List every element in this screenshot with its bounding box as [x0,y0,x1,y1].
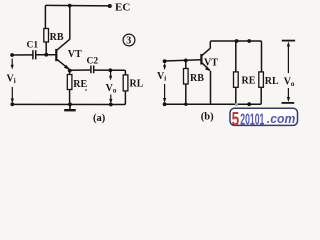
resistor RL (b) [259,72,264,87]
source Vo arrow upper segment (b) [287,42,290,74]
svg-text:3: 3 [126,36,131,47]
terminal bar: Vo bottom (b) [282,102,295,104]
svg-text:C1: C1 [27,41,39,51]
svg-text:EC: EC [115,2,130,14]
wire: junction down to RB (b) [185,60,187,68]
svg-text:Vi: Vi [157,71,166,83]
svg-text:20101: 20101 [240,111,264,128]
svg-text:VT: VT [68,49,82,60]
source Vo arrow lower segment (b) [287,88,290,102]
resistor RL (a) [123,75,128,91]
wire: emitter node to C2 [70,69,91,71]
wire: (b) collector riser and top rail [210,41,261,72]
wire: RB bottom to base node [45,42,47,55]
source Vi arrow lower segment (b) [163,84,166,103]
transistor VT (b) [201,48,210,71]
watermark logo 520101.com [230,103,298,130]
node: extra junction dot on (b) bottom rail [247,102,251,106]
stray mark [85,89,87,91]
node: (a) input top terminal [10,53,14,57]
svg-text:RE: RE [242,76,256,87]
node: (a) input bottom terminal [10,102,14,106]
node: (b) input top terminal [163,59,167,63]
resistor RE (b) [234,72,239,87]
wire: (b) input top to base [165,60,201,61]
svg-text:VT: VT [204,58,218,69]
svg-text:RL: RL [130,79,144,90]
resistor RB (b) [184,69,189,85]
source Vi arrow upper segment (a) [11,59,14,70]
wire: input top to C1 [12,54,32,56]
node: collector junction on top rail [68,4,72,8]
svg-text:(a): (a) [93,113,106,124]
wire: C2 to RL top corner [94,70,125,75]
wire: RE to bottom rail [69,90,71,105]
ground [64,104,76,110]
wire: (a) top supply rail [45,5,109,28]
svg-text:RE: RE [73,79,87,90]
wire: RE top connection (b) [235,41,237,72]
svg-text:Vo: Vo [106,83,117,95]
wire: (a) bottom rail [12,103,124,105]
node: extra junction dot on (b) top rail [247,39,251,43]
wire: emitter node down to RE [69,71,71,75]
node: RB bottom junction dot (b) [184,103,187,106]
transistor VT (a) [56,39,70,70]
wire: RE bottom to rail (b) [235,87,237,104]
terminal bar: Vo top (b) [282,40,295,42]
wire: (b) bottom rail [165,103,261,105]
node: RE top junction dot (b) [235,39,239,43]
svg-text:Vo: Vo [284,77,295,89]
node: EC terminal dot [108,4,112,8]
capacitor C2 [91,66,94,74]
node: Vo bottom junction dot [109,103,113,107]
svg-text:(b): (b) [201,111,214,122]
wire: C1 to base bar [36,54,56,56]
capacitor C1 [33,50,36,59]
node: emitter junction dot [68,69,72,73]
source Vi arrow lower segment (a) [11,87,14,104]
svg-text:5: 5 [232,109,240,130]
node: output junction dot [109,68,113,72]
node: base junction dot [44,53,48,57]
node: ground junction dot [68,103,72,107]
svg-text:Vi: Vi [7,74,16,86]
resistor RB [44,29,49,43]
svg-text:.com: .com [267,111,296,126]
resistor RE (a) [67,75,72,90]
source Vo arrow lower segment (a) [109,95,112,105]
svg-text:RL: RL [265,76,279,87]
svg-text:RB: RB [190,73,204,84]
svg-text:C2: C2 [87,57,99,67]
source Vi arrow upper segment (b) [163,64,166,71]
figure number marker ③ [123,34,135,47]
wire: RL bottom to rail corner [124,91,125,105]
node: RB top junction dot (b) [184,59,188,63]
wire: RL bottom to rail corner (b) [260,87,261,104]
wire: emitter down to rail (b) [210,71,212,104]
node: (b) input bottom terminal [163,102,167,106]
svg-text:RB: RB [50,32,64,43]
source Vo arrow upper segment (a) [109,71,112,81]
wire: collector to top rail [69,6,71,40]
wire: RB bottom to rail (b) [185,84,187,104]
